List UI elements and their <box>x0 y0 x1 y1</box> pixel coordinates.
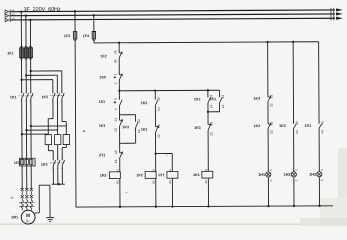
svg-text:1H1: 1H1 <box>258 173 265 177</box>
auxiliary contact 1K3 lamp rung 1H2 <box>279 124 286 128</box>
wire lamp rung 1H2 <box>292 42 294 119</box>
svg-text:A1: A1 <box>151 169 155 173</box>
wire rail 2 <box>119 89 219 92</box>
node branch junction phase 3 <box>30 70 32 72</box>
svg-text:1K3: 1K3 <box>122 125 129 129</box>
svg-text:1K1: 1K1 <box>210 97 217 101</box>
node 1F4 tap <box>93 14 95 16</box>
wire 1K2 output middle <box>56 100 58 134</box>
wire <box>293 133 295 172</box>
wire phase 3 drop <box>29 20 31 48</box>
wire <box>219 107 221 111</box>
fuse 1F4 <box>83 31 96 40</box>
source arrow L1 <box>5 8 15 14</box>
svg-text:1H3: 1H3 <box>309 173 316 177</box>
svg-text:1K1: 1K1 <box>193 173 200 177</box>
wire <box>318 177 320 206</box>
node star junction <box>58 183 60 185</box>
auxiliary contact 1K3 (21-22) lamp rung <box>254 97 261 101</box>
wire lamp rung 1H1 <box>267 42 269 92</box>
auxiliary contact 1K3 (21-22) <box>194 126 201 130</box>
bus end arrow <box>331 8 343 12</box>
svg-text:1K3: 1K3 <box>41 163 48 167</box>
wire motor PE <box>35 212 40 214</box>
svg-text:4: 4 <box>114 108 118 110</box>
svg-text:A1: A1 <box>168 168 172 172</box>
wire phase 3 to 1K1 <box>30 59 32 92</box>
wire 1F3 drop <box>74 11 76 31</box>
node dT1 branch <box>154 152 156 154</box>
svg-text:5: 5 <box>61 91 62 93</box>
contactor coil 1K3 <box>100 169 121 184</box>
svg-text:21: 21 <box>157 124 161 128</box>
wire phase 2 to 1K1 <box>25 59 27 92</box>
node rung 2 top <box>154 89 156 91</box>
source arrow L2 <box>5 12 15 18</box>
wire phase 2 drop <box>25 16 27 48</box>
svg-text:21: 21 <box>114 118 118 122</box>
contactor contacts 1K2 (power) <box>41 91 64 102</box>
node lamp rung top 1H1 <box>266 41 268 43</box>
svg-text:21: 21 <box>269 94 273 98</box>
wire 1K3 hold branch <box>120 114 136 116</box>
ground <box>46 218 54 222</box>
overload relay 1F2 (heaters) <box>14 158 35 166</box>
contactor contacts 1K1 (power) <box>10 91 33 102</box>
svg-text:1K3: 1K3 <box>254 97 261 101</box>
auxiliary contact 1K2 (13-14) <box>141 101 148 105</box>
svg-text:3F 220V 60Hz: 3F 220V 60Hz <box>23 7 61 13</box>
node rail2 junction <box>118 90 120 92</box>
wire <box>267 106 269 119</box>
node main rung top <box>118 42 120 44</box>
node bus tap phase 2 <box>25 14 27 16</box>
svg-text:22: 22 <box>114 128 118 132</box>
timer coil dT1 <box>158 168 178 183</box>
wire branch to 1K2 phase 1 <box>22 79 53 81</box>
node <box>207 205 209 207</box>
svg-text:16: 16 <box>114 159 118 163</box>
svg-text:5: 5 <box>61 158 62 160</box>
node tap junction phase 3 <box>30 125 32 127</box>
wire 1F2 out phase 3 <box>30 166 32 189</box>
wire branch to 1K2 phase 2 <box>26 74 57 76</box>
wire rung 2 <box>154 91 156 95</box>
wire <box>155 137 157 171</box>
bus end arrow <box>331 16 343 20</box>
svg-text:1: 1 <box>21 91 22 93</box>
svg-text:dT1: dT1 <box>99 153 105 157</box>
scan artifact shading <box>338 148 347 226</box>
wire phase 1 to 1K1 <box>21 59 23 92</box>
node tap junction phase 2 <box>25 129 27 131</box>
svg-text:44: 44 <box>295 130 299 134</box>
contactor coil 1K1 <box>193 168 213 183</box>
wire bottom rail <box>76 206 333 207</box>
wire bus L3 <box>10 18 335 20</box>
stray mark <box>82 130 85 132</box>
svg-text:1F3: 1F3 <box>64 34 70 38</box>
svg-text:14: 14 <box>221 104 225 108</box>
auxiliary contact 1K3 (13-14) <box>122 125 129 129</box>
svg-text:13: 13 <box>137 119 141 123</box>
svg-text:43: 43 <box>295 121 299 125</box>
svg-text:A1: A1 <box>115 169 119 173</box>
svg-text:1K2: 1K2 <box>136 173 143 177</box>
auxiliary contact 1K1 (21-22) <box>99 124 106 128</box>
wire branch to dT1 coil <box>156 153 173 155</box>
wire tap to winding 3 <box>31 125 66 127</box>
wire tap to winding 1 <box>22 133 48 135</box>
wire rung 1 top <box>118 43 120 48</box>
node bus tap phase 1 <box>20 10 22 12</box>
wire <box>318 133 320 172</box>
svg-text:21: 21 <box>269 121 273 125</box>
svg-text:1: 1 <box>52 158 53 160</box>
svg-text:A2: A2 <box>168 180 172 184</box>
wire phase 3 to 1F2 <box>30 100 32 158</box>
motor cable leads <box>19 198 35 210</box>
svg-text:1K2: 1K2 <box>42 95 49 99</box>
svg-text:3: 3 <box>56 91 57 93</box>
wire <box>154 110 156 122</box>
wire 1K1 hold branch <box>218 90 220 92</box>
svg-text:43: 43 <box>320 121 324 125</box>
svg-text:22: 22 <box>157 134 161 138</box>
lamp 1H3 <box>309 173 316 177</box>
svg-text:22: 22 <box>269 103 273 107</box>
node <box>155 206 157 208</box>
wire 1F2 out phase 2 <box>26 166 28 189</box>
svg-text:22: 22 <box>269 130 273 134</box>
svg-text:3: 3 <box>25 91 26 93</box>
wire <box>293 177 295 206</box>
contactor coil 1K2 <box>136 169 156 184</box>
wire phase 1 to 1F2 <box>21 100 23 158</box>
node <box>267 205 269 207</box>
wire bus L2 <box>10 14 335 16</box>
auxiliary contact 1K1 lamp rung 1H3 <box>305 124 312 128</box>
stop button 1S0 <box>99 75 116 79</box>
wire <box>155 178 157 206</box>
auxiliary contact 1K1 (13-14) <box>210 97 217 101</box>
node 1F3 tap <box>74 10 76 12</box>
wire <box>119 178 121 206</box>
overload contact 1F2 (95-96) <box>100 54 106 58</box>
wire control return <box>74 39 77 207</box>
wire <box>267 133 269 172</box>
svg-text:3: 3 <box>57 158 58 160</box>
bus end arrow <box>331 12 343 16</box>
svg-text:A2: A2 <box>116 180 120 184</box>
wire bus L1 <box>10 10 335 12</box>
svg-text:3: 3 <box>114 98 118 100</box>
wire lamp rung 1H3 <box>318 42 320 119</box>
svg-text:1H2: 1H2 <box>284 173 291 177</box>
svg-text:2: 2 <box>114 82 118 84</box>
wire <box>119 162 121 171</box>
svg-text:14: 14 <box>209 104 213 108</box>
svg-text:1K1: 1K1 <box>10 95 17 99</box>
wire <box>118 110 120 115</box>
wire <box>207 178 209 206</box>
svg-text:1K2: 1K2 <box>194 97 201 101</box>
svg-text:1F1: 1F1 <box>7 51 13 55</box>
timer contact dT1 (15-16) <box>99 153 105 157</box>
svg-text:1F4: 1F4 <box>83 34 89 38</box>
lamp 1H1 <box>258 173 265 177</box>
wire 1F2 out phase 1 <box>21 166 23 189</box>
svg-text:1K2: 1K2 <box>141 101 148 105</box>
starting resistor/winding R3 <box>63 135 69 145</box>
wire <box>119 131 121 148</box>
svg-text:44: 44 <box>320 130 324 134</box>
svg-text:13: 13 <box>221 95 225 99</box>
contactor contacts 1K3 (star point) <box>41 158 65 170</box>
svg-text:1K2: 1K2 <box>254 124 261 128</box>
starting resistor/winding R1 <box>45 135 51 145</box>
svg-text:A1: A1 <box>204 168 208 172</box>
svg-text:1K3: 1K3 <box>279 124 286 128</box>
wire 1K2 output splay right <box>61 100 63 121</box>
svg-text:x1: x1 <box>10 196 14 200</box>
wire 1F4 drop <box>93 15 95 31</box>
wire phase 2 to 1F2 <box>25 100 27 158</box>
svg-text:dT1: dT1 <box>158 173 164 177</box>
wire 1K2 output splay left <box>52 100 54 118</box>
start button 1S1 <box>99 100 116 104</box>
wire <box>267 177 269 206</box>
svg-text:1F2: 1F2 <box>14 161 20 165</box>
node rung 3 top <box>207 89 209 91</box>
svg-text:1F2: 1F2 <box>100 54 106 58</box>
svg-text:1: 1 <box>52 91 53 93</box>
wire <box>135 132 137 143</box>
node branch junction phase 1 <box>20 79 22 81</box>
fuse 1F1 <box>7 47 32 60</box>
wire tap to winding 2 <box>26 129 57 131</box>
node tap junction phase 1 <box>21 133 23 135</box>
svg-text:A2: A2 <box>151 180 155 184</box>
svg-text:13: 13 <box>157 97 161 101</box>
node branch junction phase 2 <box>25 74 27 76</box>
fuse 1F3 <box>64 31 77 40</box>
svg-text:1K3: 1K3 <box>194 126 201 130</box>
svg-text:96: 96 <box>114 59 118 63</box>
source arrow L3 <box>5 16 15 22</box>
svg-text:1S1: 1S1 <box>99 100 105 104</box>
node bus tap phase 3 <box>29 19 31 21</box>
lamp 1H2 <box>284 173 291 177</box>
svg-text:1: 1 <box>114 73 118 75</box>
auxiliary contact 1K1 (21-22) rung 2 <box>141 128 148 132</box>
svg-text:14: 14 <box>157 107 161 111</box>
wire star point <box>52 167 54 184</box>
wire branch to 1K2 phase 3 <box>31 70 62 72</box>
wire winding outputs converge <box>47 145 49 151</box>
svg-text:95: 95 <box>113 50 117 54</box>
wire rung 3 <box>207 90 209 92</box>
svg-text:1K1: 1K1 <box>141 128 148 132</box>
auxiliary contact 1K2 lamp rung 1H1 <box>254 124 261 128</box>
wire phase 1 drop <box>20 12 22 48</box>
auxiliary contact 1K2 (13-14) rung 3 <box>194 97 201 101</box>
wire <box>207 135 209 171</box>
motor 1M1 <box>11 210 35 224</box>
svg-text:1K1: 1K1 <box>99 124 106 128</box>
node <box>207 111 209 113</box>
svg-text:1K3: 1K3 <box>100 174 107 178</box>
svg-text:A2: A2 <box>204 180 208 184</box>
node <box>318 205 320 207</box>
wire <box>118 62 120 70</box>
node <box>293 205 295 207</box>
svg-text:5: 5 <box>30 91 31 93</box>
svg-text:1S0: 1S0 <box>99 75 105 79</box>
terminal strip x1 <box>10 188 33 200</box>
svg-text:21: 21 <box>209 122 213 126</box>
starting resistor/winding R2 <box>54 135 60 145</box>
svg-text:3~: 3~ <box>26 218 31 223</box>
svg-text:1M1: 1M1 <box>11 215 18 219</box>
svg-text:15: 15 <box>114 150 118 154</box>
node lamp rung top 1H2 <box>292 41 294 43</box>
wire top rail <box>94 42 319 43</box>
wire <box>118 84 120 95</box>
node <box>119 206 121 208</box>
svg-text:22: 22 <box>209 132 213 136</box>
svg-text:1K1: 1K1 <box>305 124 312 128</box>
wire 1F4 to top rail <box>93 39 95 43</box>
